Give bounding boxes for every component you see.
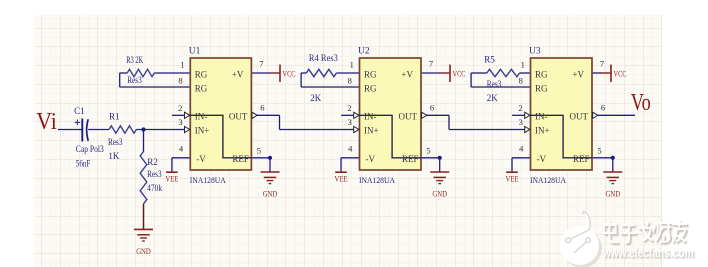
svg-text:Res3: Res3: [127, 75, 142, 85]
svg-text:8: 8: [348, 75, 352, 85]
svg-text:3: 3: [348, 117, 352, 127]
svg-text:RG: RG: [195, 83, 208, 93]
svg-text:-V: -V: [537, 154, 547, 164]
svg-text:VEE: VEE: [506, 175, 519, 184]
svg-text:1K: 1K: [108, 151, 120, 161]
svg-text:7: 7: [429, 59, 433, 69]
svg-text:U1: U1: [189, 47, 201, 57]
svg-text:IN-: IN-: [195, 111, 208, 121]
svg-text:5: 5: [426, 146, 430, 156]
svg-text:2: 2: [347, 103, 351, 113]
svg-text:6: 6: [430, 103, 434, 113]
svg-text:-V: -V: [196, 154, 206, 164]
svg-text:VEE: VEE: [335, 175, 348, 184]
svg-text:RG: RG: [535, 69, 548, 79]
svg-text:IN-: IN-: [364, 111, 377, 121]
svg-text:Res3: Res3: [487, 79, 502, 89]
svg-text:Vi: Vi: [36, 109, 57, 135]
svg-text:3: 3: [178, 117, 182, 127]
svg-text:1: 1: [350, 60, 354, 70]
svg-text:GND: GND: [606, 190, 621, 199]
svg-text:Res3: Res3: [108, 137, 123, 147]
svg-text:RG: RG: [195, 69, 208, 79]
svg-text:R4 Res3: R4 Res3: [309, 53, 338, 63]
svg-text:6: 6: [601, 103, 605, 113]
svg-text:6: 6: [260, 103, 264, 113]
svg-text:RG: RG: [535, 83, 548, 93]
svg-text:RG: RG: [364, 69, 377, 79]
svg-text:+V: +V: [572, 69, 584, 79]
svg-text:+V: +V: [401, 69, 413, 79]
svg-text:INA128UA: INA128UA: [530, 175, 567, 185]
svg-text:3: 3: [519, 117, 523, 127]
svg-text:4: 4: [519, 144, 524, 154]
svg-text:INA128UA: INA128UA: [359, 175, 396, 185]
svg-text:C1: C1: [74, 106, 85, 116]
svg-text:2: 2: [518, 103, 522, 113]
svg-text:VCC: VCC: [283, 69, 296, 78]
svg-text:GND: GND: [136, 247, 151, 256]
svg-text:8: 8: [178, 75, 182, 85]
svg-text:R2: R2: [147, 157, 158, 167]
svg-text:R1: R1: [109, 111, 120, 121]
svg-text:VCC: VCC: [614, 69, 627, 78]
svg-text:1: 1: [521, 60, 525, 70]
svg-text:2K: 2K: [487, 93, 499, 103]
svg-text:GND: GND: [263, 190, 278, 199]
svg-text:Vo: Vo: [631, 90, 651, 116]
svg-text:2K: 2K: [310, 93, 322, 103]
svg-text:OUT: OUT: [229, 111, 248, 121]
svg-text:www.elecfans.com: www.elecfans.com: [602, 245, 694, 260]
svg-text:470k: 470k: [147, 183, 162, 193]
svg-text:IN+: IN+: [364, 126, 379, 136]
svg-text:1: 1: [180, 60, 184, 70]
svg-text:5: 5: [257, 146, 261, 156]
svg-text:U2: U2: [358, 47, 370, 57]
svg-text:OUT: OUT: [399, 111, 418, 121]
svg-text:2: 2: [178, 103, 182, 113]
svg-text:REF: REF: [402, 154, 419, 164]
svg-text:+V: +V: [232, 69, 244, 79]
svg-text:R5: R5: [484, 54, 495, 64]
svg-text:8: 8: [519, 75, 523, 85]
svg-text:R3 2K: R3 2K: [126, 55, 143, 65]
svg-text:IN+: IN+: [195, 126, 210, 136]
svg-text:REF: REF: [232, 154, 249, 164]
svg-text:U3: U3: [529, 47, 541, 57]
svg-text:56nF: 56nF: [76, 159, 91, 169]
svg-text:7: 7: [259, 59, 263, 69]
svg-text:-V: -V: [366, 154, 376, 164]
svg-text:IN-: IN-: [535, 111, 548, 121]
svg-text:GND: GND: [432, 190, 447, 199]
svg-text:REF: REF: [573, 154, 590, 164]
svg-text:Cap Pol3: Cap Pol3: [76, 144, 104, 154]
svg-text:7: 7: [600, 59, 604, 69]
svg-text:RG: RG: [364, 83, 377, 93]
svg-text:VEE: VEE: [165, 175, 178, 184]
svg-text:OUT: OUT: [570, 111, 589, 121]
svg-text:5: 5: [597, 146, 601, 156]
svg-text:Res3: Res3: [147, 169, 162, 179]
svg-text:INA128UA: INA128UA: [190, 175, 227, 185]
svg-text:IN+: IN+: [535, 126, 550, 136]
svg-text:4: 4: [348, 144, 353, 154]
svg-text:VCC: VCC: [453, 69, 466, 78]
